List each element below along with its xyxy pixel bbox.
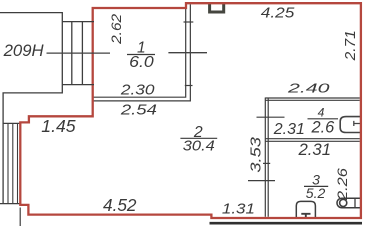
svg-text:6.0: 6.0 (129, 54, 154, 71)
hatch line 1 (7, 123, 9, 203)
toilet T mark (301, 214, 310, 219)
wall room4/room3 line b (265, 140, 360, 142)
fraction bar room2 (180, 137, 217, 139)
svg-text:2.26: 2.26 (334, 168, 350, 201)
toilet (296, 201, 315, 218)
svg-text:2.62: 2.62 (109, 14, 125, 45)
svg-text:3.53: 3.53 (249, 137, 265, 173)
svg-text:2.40: 2.40 (286, 81, 330, 96)
svg-text:5.2: 5.2 (306, 185, 326, 201)
stairs tread line 1 (71, 22, 73, 85)
svg-text:4.25: 4.25 (261, 5, 295, 22)
interior wall room1/room2 outer line (93, 4, 191, 101)
small tick on room2 wall (263, 162, 270, 164)
hatch line 3 (17, 123, 19, 203)
tick leader 2.31 room4 (257, 116, 285, 118)
leader line right of room1 label (168, 52, 207, 54)
vent shaft symbol (210, 4, 224, 12)
hatch line 2 (12, 123, 14, 203)
tick on wall at room1 top (184, 21, 194, 23)
svg-text:2.31: 2.31 (273, 121, 305, 138)
stairs tread line 2 (81, 22, 83, 85)
fraction bar room4 (308, 118, 339, 120)
wall above room4 line a (265, 97, 360, 99)
wall room2 right, line a (264, 98, 266, 217)
svg-text:209Н: 209Н (3, 42, 44, 60)
fraction bar room3 (304, 185, 328, 187)
leader line from 209N (47, 52, 111, 54)
bottom exterior black line (210, 222, 363, 225)
svg-text:1.31: 1.31 (222, 202, 255, 218)
boiler circle (340, 199, 347, 206)
wall above room4 line b (265, 99, 360, 101)
tick below 3.53 (248, 180, 275, 182)
hatched wall ledge left (3, 122, 20, 124)
sink tap tick (354, 121, 361, 126)
boiler divider (354, 198, 356, 208)
svg-text:2.6: 2.6 (310, 118, 335, 136)
boiler bottom right (337, 198, 361, 208)
interior wall room1/room2 inner line (93, 4, 186, 97)
svg-text:30.4: 30.4 (183, 139, 215, 155)
svg-text:2.71: 2.71 (343, 30, 359, 61)
wall room2 right, line b (267, 98, 269, 217)
hatched wall bottom cap (0, 203, 20, 205)
svg-text:2.31: 2.31 (297, 141, 331, 159)
building outline top-left (0, 13, 62, 204)
fraction bar room1 (127, 54, 155, 56)
wall room4/room3 line a (265, 138, 360, 140)
svg-text:2.54: 2.54 (120, 102, 157, 118)
svg-text:2.30: 2.30 (120, 81, 155, 98)
svg-text:4: 4 (318, 105, 325, 119)
stairs top edge (62, 21, 94, 23)
stairs bottom edge (62, 84, 94, 86)
svg-text:1.45: 1.45 (41, 117, 76, 136)
wall stub below red corner (19, 208, 21, 227)
sink room4 (340, 117, 361, 133)
svg-text:4.52: 4.52 (103, 195, 137, 215)
tick on wall at room1 bottom (185, 85, 193, 87)
